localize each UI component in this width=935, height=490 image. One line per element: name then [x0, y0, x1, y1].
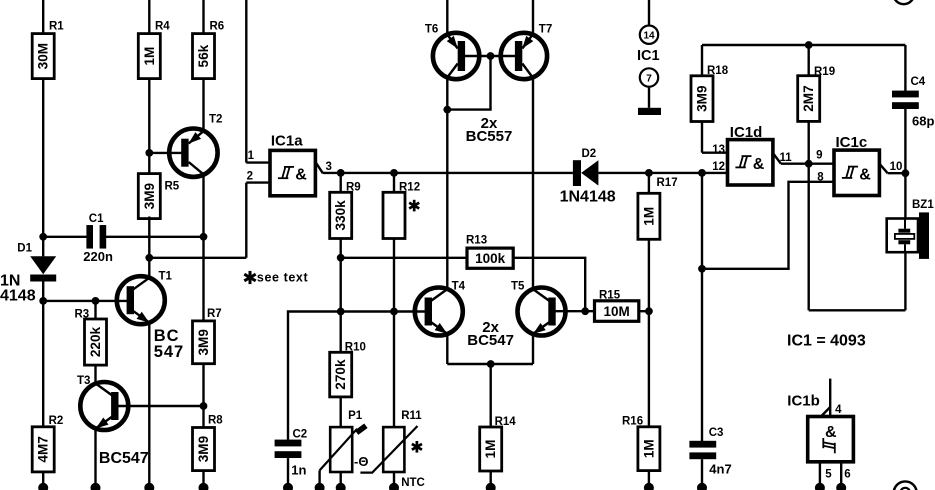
svg-text:220k: 220k [88, 326, 103, 357]
svg-text:&: & [753, 156, 765, 173]
svg-text:100k: 100k [475, 251, 506, 266]
svg-text:D1: D1 [17, 242, 32, 254]
svg-text:4M7: 4M7 [36, 436, 51, 462]
svg-text:R18: R18 [707, 65, 729, 77]
svg-text:1M: 1M [641, 207, 656, 226]
svg-text:68p: 68p [912, 114, 934, 129]
svg-text:BC547: BC547 [99, 450, 149, 467]
svg-text:1M: 1M [142, 47, 157, 66]
svg-text:56k: 56k [196, 44, 211, 67]
svg-text:10: 10 [890, 161, 903, 173]
svg-text:T6: T6 [425, 24, 438, 36]
svg-text:3M9: 3M9 [142, 182, 157, 209]
svg-text:R8: R8 [208, 415, 223, 427]
svg-text:BC547: BC547 [467, 332, 514, 349]
svg-text:R16: R16 [622, 415, 643, 427]
svg-text:BC557: BC557 [466, 128, 513, 145]
svg-text:330k: 330k [333, 200, 348, 231]
svg-text:see text: see text [257, 271, 309, 285]
svg-text:R15: R15 [599, 289, 621, 301]
svg-text:IC1b: IC1b [787, 393, 820, 410]
svg-text:220n: 220n [83, 249, 113, 264]
svg-text:NTC: NTC [401, 477, 425, 489]
svg-text:R7: R7 [207, 308, 222, 320]
svg-text:12: 12 [712, 161, 725, 173]
svg-text:&: & [295, 167, 307, 184]
svg-text:C3: C3 [709, 427, 724, 439]
svg-text:IC1a: IC1a [271, 132, 303, 149]
svg-text:IC1d: IC1d [730, 124, 763, 141]
svg-text:IC1: IC1 [637, 48, 660, 64]
svg-text:7: 7 [646, 74, 652, 85]
svg-text:1n: 1n [291, 462, 306, 477]
svg-text:R10: R10 [345, 342, 366, 354]
svg-text:R14: R14 [495, 416, 517, 428]
svg-text:T5: T5 [511, 281, 525, 293]
svg-text:2: 2 [247, 171, 253, 183]
svg-text:&: & [825, 424, 837, 441]
svg-text:11: 11 [780, 152, 793, 164]
svg-text:T4: T4 [452, 281, 466, 293]
svg-text:3M9: 3M9 [196, 329, 211, 356]
svg-text:C1: C1 [89, 213, 104, 225]
svg-text:R4: R4 [155, 21, 170, 33]
svg-text:2M7: 2M7 [801, 85, 816, 111]
svg-text:R1: R1 [49, 21, 64, 33]
svg-text:R9: R9 [346, 182, 361, 194]
svg-text:1N4148: 1N4148 [560, 188, 616, 205]
svg-text:R5: R5 [165, 181, 180, 193]
svg-text:T2: T2 [209, 114, 222, 126]
svg-text:13: 13 [712, 144, 725, 156]
svg-text:R17: R17 [657, 177, 678, 189]
svg-text:R13: R13 [466, 234, 487, 246]
svg-text:4: 4 [835, 404, 842, 416]
svg-text:547: 547 [154, 343, 185, 361]
svg-text:IC1 = 4093: IC1 = 4093 [787, 332, 866, 349]
svg-text:4148: 4148 [0, 288, 36, 305]
svg-text:10M: 10M [604, 304, 630, 319]
svg-text:1: 1 [248, 150, 255, 162]
svg-text:9: 9 [816, 150, 822, 162]
svg-text:R2: R2 [49, 415, 64, 427]
svg-text:3M9: 3M9 [695, 85, 710, 112]
svg-text:C4: C4 [911, 76, 926, 88]
svg-text:R12: R12 [399, 182, 420, 194]
svg-text:R6: R6 [210, 21, 225, 33]
svg-text:R11: R11 [401, 410, 422, 422]
svg-text:P1: P1 [348, 410, 363, 422]
svg-text:&: & [859, 166, 871, 183]
svg-text:D2: D2 [582, 148, 597, 160]
svg-text:R3: R3 [75, 309, 90, 321]
svg-text:R19: R19 [814, 66, 835, 78]
svg-text:T3: T3 [77, 375, 90, 387]
svg-text:IC1c: IC1c [836, 134, 868, 151]
svg-text:270k: 270k [333, 359, 348, 390]
svg-text:1M: 1M [483, 440, 498, 459]
svg-text:T7: T7 [539, 24, 552, 36]
svg-text:3M9: 3M9 [196, 435, 211, 462]
svg-text:8: 8 [817, 171, 824, 183]
svg-text:4n7: 4n7 [709, 462, 731, 477]
svg-text:C2: C2 [293, 429, 308, 441]
svg-text:1M: 1M [641, 439, 656, 458]
svg-text:-Θ: -Θ [354, 454, 368, 469]
svg-text:5: 5 [825, 469, 832, 481]
svg-text:30M: 30M [36, 43, 51, 69]
svg-text:BZ1: BZ1 [912, 199, 934, 211]
svg-text:T1: T1 [159, 271, 173, 283]
svg-text:3: 3 [326, 161, 332, 173]
svg-text:6: 6 [844, 469, 850, 481]
svg-text:14: 14 [643, 31, 655, 42]
